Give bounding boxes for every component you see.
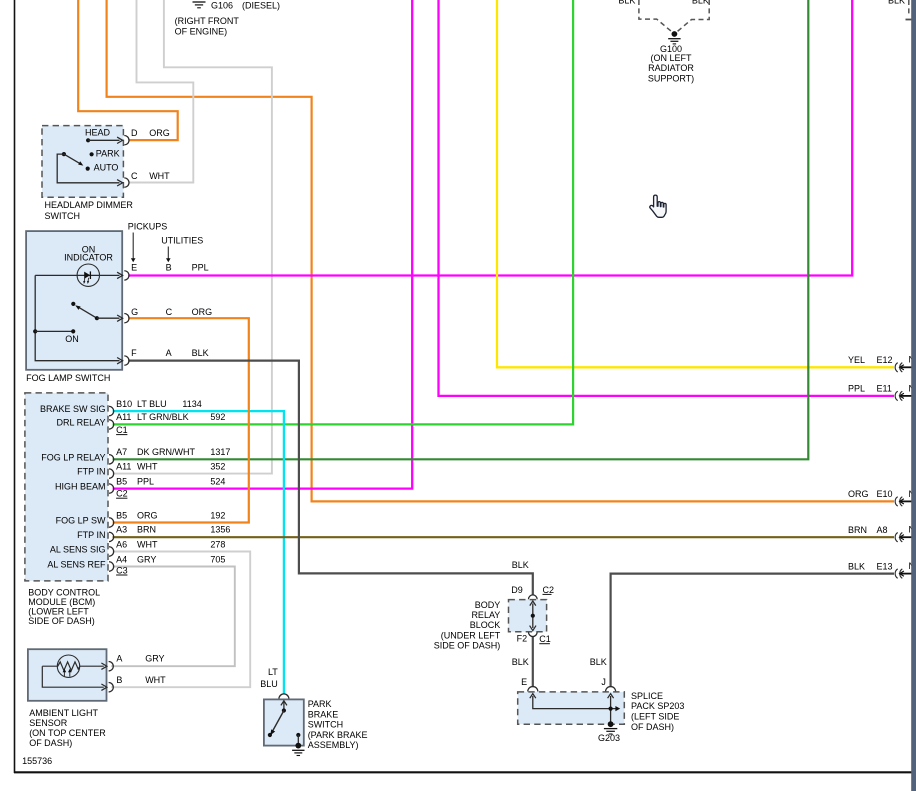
svg-text:PARK: PARK xyxy=(96,148,120,158)
svg-text:RADIATOR: RADIATOR xyxy=(648,63,694,73)
inline connector A8 (BRN) at right edge xyxy=(895,533,911,542)
pin F arrow xyxy=(117,358,123,364)
pin D arc xyxy=(124,136,129,145)
wire PPL from top to BCM pin B5 HIGH BEAM xyxy=(113,0,413,489)
node G100 junction dot xyxy=(672,31,678,37)
svg-text:352: 352 xyxy=(210,461,225,471)
node ground junction dot xyxy=(295,743,301,749)
svg-text:SWITCH: SWITCH xyxy=(308,720,344,730)
svg-text:SPLICE: SPLICE xyxy=(631,691,663,701)
svg-text:YEL: YEL xyxy=(848,355,865,365)
svg-text:C: C xyxy=(131,171,138,181)
svg-text:A11: A11 xyxy=(116,412,131,422)
svg-text:FOG LAMP SWITCH: FOG LAMP SWITCH xyxy=(26,373,110,383)
svg-text:HEADLAMP DIMMER: HEADLAMP DIMMER xyxy=(45,200,134,210)
svg-text:SIDE OF DASH): SIDE OF DASH) xyxy=(28,616,95,626)
svg-text:705: 705 xyxy=(210,554,225,564)
wire contact to pin G arrow xyxy=(97,317,120,319)
svg-text:G: G xyxy=(131,307,138,317)
body relay block bottom connector cap arc xyxy=(529,632,538,636)
svg-text:E12: E12 xyxy=(877,355,893,365)
svg-text:BRAKE SW SIG: BRAKE SW SIG xyxy=(40,404,106,414)
svg-text:(DIESEL): (DIESEL) xyxy=(242,1,280,11)
node AUTO terminal dot xyxy=(86,167,90,171)
internal wire pin J down to ground xyxy=(610,696,612,724)
svg-text:BRN: BRN xyxy=(848,525,867,535)
dashed ground leads converging to G100 xyxy=(639,0,672,32)
svg-text:E: E xyxy=(521,677,527,687)
svg-text:A6: A6 xyxy=(116,539,127,549)
svg-text:D9: D9 xyxy=(511,585,523,595)
wire BLK from connector E13 to splice pack pin J xyxy=(611,574,894,688)
svg-text:FOG LP SW: FOG LP SW xyxy=(56,516,106,526)
switch arm from pivot toward AUTO xyxy=(62,152,66,156)
pin F arc xyxy=(124,356,129,365)
svg-text:E11: E11 xyxy=(877,384,892,394)
inline connector E13 (BLK) at right edge xyxy=(895,569,911,578)
svg-text:E13: E13 xyxy=(877,561,893,571)
svg-text:AL SENS SIG: AL SENS SIG xyxy=(50,545,106,555)
svg-text:A11: A11 xyxy=(116,461,131,471)
page frame bottom border xyxy=(14,771,912,773)
wire LT BLU from BCM pin B10 BRAKE SW SIG to park brake switch xyxy=(113,411,284,694)
svg-text:A4: A4 xyxy=(116,554,127,564)
ground symbol G203 xyxy=(604,728,617,730)
svg-text:C1: C1 xyxy=(116,425,128,435)
photocell arrows xyxy=(63,671,65,677)
svg-text:HEAD: HEAD xyxy=(85,127,111,137)
svg-text:PPL: PPL xyxy=(848,384,865,394)
body control module dashed box xyxy=(25,393,108,581)
svg-text:(ON TOP CENTER: (ON TOP CENTER xyxy=(29,728,106,738)
pin B arc xyxy=(109,683,114,692)
svg-text:BODY CONTROL: BODY CONTROL xyxy=(28,587,100,597)
svg-text:BLK: BLK xyxy=(512,657,529,667)
wire WHT from top to headlamp dimmer switch pin C xyxy=(129,0,194,183)
svg-text:LT BLU: LT BLU xyxy=(137,399,167,409)
wire internal top with photoresistor zigzag to pin A arrow xyxy=(42,662,104,671)
svg-text:WHT: WHT xyxy=(145,675,166,685)
svg-text:BODY: BODY xyxy=(475,600,501,610)
wire ON contact stub xyxy=(33,329,37,333)
ground symbol (park brake assembly) xyxy=(292,749,304,751)
svg-text:ORG: ORG xyxy=(192,307,213,317)
svg-text:PACK SP203: PACK SP203 xyxy=(631,701,684,711)
svg-text:BLK: BLK xyxy=(692,0,709,5)
node PARK terminal dot xyxy=(90,152,94,156)
switch arm toward pin G with arrowhead xyxy=(80,308,97,318)
pin C arc xyxy=(124,178,129,187)
node arm target dot xyxy=(268,733,272,737)
svg-text:RELAY: RELAY xyxy=(471,610,500,620)
svg-text:ON: ON xyxy=(65,334,79,344)
svg-text:INDICATOR: INDICATOR xyxy=(64,253,113,263)
svg-text:A: A xyxy=(116,654,122,664)
svg-text:C1: C1 xyxy=(539,634,551,644)
svg-text:E: E xyxy=(131,263,137,273)
svg-text:AL SENS REF: AL SENS REF xyxy=(47,560,106,570)
wire PPL from fog lamp switch pin E up to top xyxy=(128,0,852,276)
inline connector E10 (ORG) at right edge xyxy=(895,497,911,506)
wire internal rail left xyxy=(35,275,119,360)
svg-text:B: B xyxy=(116,675,122,685)
wire WHT from top to BCM pin A11 FTP IN xyxy=(113,0,272,474)
svg-text:B: B xyxy=(166,263,172,273)
svg-text:OF ENGINE): OF ENGINE) xyxy=(175,26,228,36)
svg-text:OF DASH): OF DASH) xyxy=(29,738,72,748)
wire pivot rail to pin C arrow xyxy=(57,154,119,183)
wire indicator line to pin E arrow xyxy=(35,274,119,276)
wire HEAD terminal to pin D arrow xyxy=(88,139,119,141)
svg-text:F2: F2 xyxy=(517,633,528,643)
page frame left border xyxy=(14,0,16,773)
svg-text:FOG LP RELAY: FOG LP RELAY xyxy=(41,452,105,462)
svg-text:B5: B5 xyxy=(116,510,127,520)
node arm contact dot xyxy=(95,316,99,320)
svg-text:BLU: BLU xyxy=(260,679,278,689)
svg-text:AUTO: AUTO xyxy=(94,162,119,172)
svg-text:C: C xyxy=(166,307,173,317)
svg-text:B10: B10 xyxy=(116,399,132,409)
svg-text:A7: A7 xyxy=(116,447,127,457)
wire WHT from BCM pin A6 AL SENS SIG to ambient light sensor pin B xyxy=(111,552,250,688)
switch arm with arrowhead xyxy=(272,711,284,734)
wire PPL from top to connector E11 xyxy=(439,0,895,396)
svg-text:GRY: GRY xyxy=(145,654,164,664)
internal fuse element with arrows and dot xyxy=(532,604,534,629)
ground G100 symbol xyxy=(668,38,680,40)
svg-text:BRN: BRN xyxy=(137,525,156,535)
svg-text:A3: A3 xyxy=(116,525,127,535)
svg-text:155736: 155736 xyxy=(22,756,52,766)
svg-text:E10: E10 xyxy=(877,489,893,499)
inline connector E11 (PPL) at right edge xyxy=(895,391,911,400)
svg-text:ORG: ORG xyxy=(149,128,170,138)
fog lamp switch box xyxy=(26,231,122,370)
svg-text:(UNDER LEFT: (UNDER LEFT xyxy=(441,630,501,640)
svg-text:DRL RELAY: DRL RELAY xyxy=(56,417,105,427)
wire BLK from fog lamp switch pin F to body relay block pin D9 xyxy=(128,361,533,595)
svg-text:SENSOR: SENSOR xyxy=(29,718,68,728)
svg-text:1317: 1317 xyxy=(210,447,230,457)
body relay block top connector cap arc xyxy=(529,595,538,599)
switch arm pivot dot xyxy=(282,708,286,712)
svg-text:SIDE OF DASH): SIDE OF DASH) xyxy=(434,641,501,651)
LED diode symbol xyxy=(84,272,90,279)
svg-text:BLK: BLK xyxy=(192,348,209,358)
svg-text:G106: G106 xyxy=(211,1,233,11)
wire ORG from fog lamp switch pin G to BCM pin B5 FOG LP SW xyxy=(113,318,249,522)
svg-text:WHT: WHT xyxy=(149,171,170,181)
svg-text:PARK: PARK xyxy=(308,699,332,709)
svg-text:G203: G203 xyxy=(598,733,620,743)
svg-text:PPL: PPL xyxy=(137,476,154,486)
svg-text:UTILITIES: UTILITIES xyxy=(161,235,203,245)
page right scrollbar-like bar xyxy=(911,0,916,791)
svg-text:524: 524 xyxy=(210,476,225,486)
svg-text:C2: C2 xyxy=(116,489,128,499)
wire DK GRN/WHT from BCM pin A7 FOG LP RELAY to top xyxy=(113,0,809,459)
wire right terminal to ground xyxy=(297,735,299,745)
pin G arc xyxy=(124,314,129,323)
svg-text:OF DASH): OF DASH) xyxy=(631,722,674,732)
splice pack pin J connector cap arc xyxy=(606,687,616,692)
wire LT GRN/BLK from BCM pin A11 DRL RELAY to top xyxy=(113,0,573,424)
wire BRN from BCM pin A3 FTP IN to connector A8 xyxy=(113,536,894,538)
svg-text:PICKUPS: PICKUPS xyxy=(128,222,168,232)
wire internal rail to pin B arrow xyxy=(42,666,104,687)
park brake switch connector cap arc xyxy=(279,694,289,699)
svg-text:F: F xyxy=(131,348,137,358)
splice pack SP203 dashed box xyxy=(518,692,625,724)
wire ORG from top to headlamp dimmer switch pin D xyxy=(78,0,178,140)
svg-text:J: J xyxy=(601,677,606,687)
ambient light sensor box xyxy=(28,649,107,701)
body relay block dashed box xyxy=(509,600,547,632)
svg-text:278: 278 xyxy=(210,539,225,549)
wire BLK from body relay block pin F2 to splice pack pin E xyxy=(532,637,534,688)
svg-text:(LOWER LEFT: (LOWER LEFT xyxy=(28,606,89,616)
node right terminal dot xyxy=(296,733,300,737)
LED indicator circle xyxy=(77,264,99,286)
pin E arc xyxy=(124,271,129,280)
splice pack pin E connector cap arc xyxy=(528,687,538,692)
pin A arc xyxy=(109,662,114,671)
svg-text:1134: 1134 xyxy=(182,399,201,409)
svg-text:(ON LEFT: (ON LEFT xyxy=(650,53,692,63)
wire YEL from top to connector E12 xyxy=(497,0,894,367)
svg-text:BLK: BLK xyxy=(848,561,865,571)
svg-text:ASSEMBLY): ASSEMBLY) xyxy=(308,740,359,750)
internal arrow up to pin xyxy=(283,702,285,711)
svg-text:B5: B5 xyxy=(116,476,127,486)
svg-text:ORG: ORG xyxy=(137,510,158,520)
switch arm pivot dot xyxy=(71,302,75,306)
wire ORG from top, down right side to connector E10 xyxy=(107,0,894,501)
svg-text:DK GRN/WHT: DK GRN/WHT xyxy=(137,447,195,457)
svg-text:BLK: BLK xyxy=(590,657,607,667)
svg-text:A: A xyxy=(166,348,172,358)
svg-text:FTP IN: FTP IN xyxy=(77,530,105,540)
svg-text:LT: LT xyxy=(268,667,278,677)
wire GRY from BCM pin A4 AL SENS REF to ambient light sensor pin A xyxy=(111,567,235,667)
svg-text:ORG: ORG xyxy=(848,489,869,499)
svg-text:BLOCK: BLOCK xyxy=(470,620,501,630)
svg-text:LT GRN/BLK: LT GRN/BLK xyxy=(137,412,189,422)
internal wire pin E down and right to junction xyxy=(533,696,617,709)
node splice junction dot xyxy=(609,707,613,711)
inline connector E12 (YEL) at right edge xyxy=(895,363,911,372)
svg-text:GRY: GRY xyxy=(137,554,156,564)
svg-text:A8: A8 xyxy=(877,525,888,535)
svg-text:BRAKE: BRAKE xyxy=(308,709,339,719)
svg-text:MODULE (BCM): MODULE (BCM) xyxy=(28,597,95,607)
svg-text:D: D xyxy=(131,128,138,138)
svg-text:WHT: WHT xyxy=(137,539,158,549)
headlamp dimmer switch dashed box xyxy=(42,126,123,198)
svg-text:WHT: WHT xyxy=(137,461,158,471)
park brake switch box xyxy=(264,699,304,745)
svg-text:BLK: BLK xyxy=(512,560,529,570)
node ground junction dot xyxy=(608,721,614,727)
svg-text:(RIGHT FRONT: (RIGHT FRONT xyxy=(175,16,240,26)
node HEAD terminal dot xyxy=(86,138,90,142)
LED emission arrows xyxy=(83,278,86,282)
svg-text:C3: C3 xyxy=(116,565,128,575)
svg-text:SWITCH: SWITCH xyxy=(45,211,81,221)
photocell circle xyxy=(57,655,79,677)
svg-text:AMBIENT LIGHT: AMBIENT LIGHT xyxy=(29,708,98,718)
svg-text:C2: C2 xyxy=(543,585,555,595)
dashed ground lead top right (clipped by border) xyxy=(908,0,910,15)
svg-text:592: 592 xyxy=(210,412,225,422)
svg-text:FTP IN: FTP IN xyxy=(77,467,105,477)
svg-text:(PARK BRAKE: (PARK BRAKE xyxy=(308,730,368,740)
svg-text:BLK: BLK xyxy=(618,0,635,5)
svg-text:192: 192 xyxy=(210,510,225,520)
svg-text:BLK: BLK xyxy=(888,0,905,5)
svg-text:PPL: PPL xyxy=(192,263,209,273)
svg-text:SUPPORT): SUPPORT) xyxy=(648,74,694,84)
mouse hand cursor xyxy=(650,195,666,217)
svg-text:HIGH BEAM: HIGH BEAM xyxy=(55,482,106,492)
svg-text:1356: 1356 xyxy=(210,525,230,535)
svg-text:(LEFT SIDE: (LEFT SIDE xyxy=(631,712,679,722)
ground G106 symbol (clipped at top) xyxy=(193,1,206,3)
